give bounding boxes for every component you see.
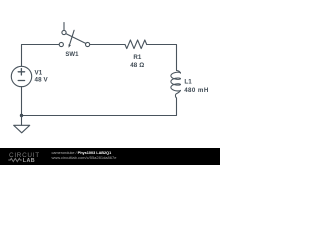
svg-text:R1: R1 — [133, 54, 142, 61]
svg-text:480 mH: 480 mH — [184, 87, 209, 94]
svg-text:48 V: 48 V — [35, 77, 49, 84]
wire V1 to bottom — [21, 87, 23, 116]
watermark bar — [0, 148, 220, 165]
wire switch to resistor — [90, 44, 125, 46]
svg-text:48 Ω: 48 Ω — [130, 62, 144, 69]
wire inductor to bottom — [22, 98, 177, 116]
switch SW1 — [59, 23, 89, 48]
wire resistor to corner — [147, 45, 177, 71]
ground — [14, 116, 30, 133]
voltage source V1 — [11, 66, 31, 86]
resistor R1 — [125, 40, 147, 49]
svg-text:www.circuitlab.com/c/55a281da8: www.circuitlab.com/c/55a281da867e — [52, 155, 118, 160]
wire top-left segment — [22, 45, 60, 67]
inductor L1 coil — [171, 71, 181, 99]
svg-text:L1: L1 — [184, 79, 192, 86]
svg-text:LAB: LAB — [23, 158, 35, 164]
svg-text:SW1: SW1 — [65, 52, 79, 58]
junction node — [20, 114, 23, 117]
logo resistor zigzag — [8, 158, 21, 161]
svg-text:V1: V1 — [35, 69, 43, 76]
